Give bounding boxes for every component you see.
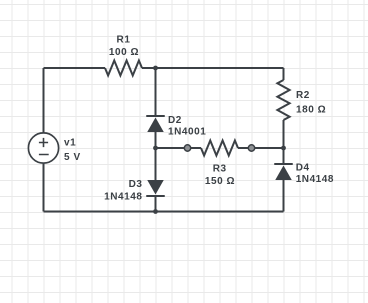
svg-text:R1: R1 bbox=[117, 35, 131, 46]
svg-text:R2: R2 bbox=[296, 90, 310, 101]
svg-text:D4: D4 bbox=[296, 163, 310, 174]
wire middle horizontal right of R3 bbox=[238, 147, 284, 149]
svg-text:D3: D3 bbox=[129, 179, 143, 190]
diode D4 bbox=[274, 164, 293, 180]
junction node bottom middle bbox=[153, 209, 158, 214]
junction node right middle bbox=[281, 146, 286, 151]
svg-text:100 Ω: 100 Ω bbox=[109, 47, 139, 58]
resistor R1 bbox=[105, 61, 142, 76]
wire top rail right of R1 bbox=[142, 67, 284, 69]
node terminal A (gray) bbox=[184, 145, 190, 151]
diode D2 bbox=[146, 116, 165, 132]
wire middle rail D2 to junction bbox=[155, 132, 157, 148]
diode D3 bbox=[146, 180, 165, 196]
wire right rail above R2 bbox=[283, 68, 285, 80]
svg-text:D2: D2 bbox=[168, 115, 182, 126]
wire right rail below D4 bbox=[283, 180, 285, 212]
svg-text:150 Ω: 150 Ω bbox=[205, 176, 235, 187]
wire right rail between R2 and D4 bbox=[283, 120, 285, 164]
junction node middle bbox=[153, 146, 158, 151]
svg-text:v1: v1 bbox=[64, 138, 76, 149]
svg-text:1N4148: 1N4148 bbox=[296, 174, 334, 185]
wire left rail below v1 bbox=[43, 164, 45, 212]
resistor R2 bbox=[277, 80, 289, 120]
wire left rail above v1 bbox=[43, 68, 45, 132]
svg-text:R3: R3 bbox=[213, 163, 227, 174]
junction node top middle bbox=[153, 66, 158, 71]
wire middle rail above D2 bbox=[155, 68, 157, 116]
node terminal B (gray) bbox=[248, 145, 254, 151]
resistor R3 bbox=[201, 141, 238, 156]
wire middle horizontal left of R3 bbox=[156, 147, 202, 149]
wire bottom rail bbox=[44, 211, 284, 213]
wire top rail left of R1 bbox=[44, 67, 106, 69]
svg-text:180 Ω: 180 Ω bbox=[296, 104, 326, 115]
svg-text:5 V: 5 V bbox=[64, 152, 81, 163]
svg-text:1N4001: 1N4001 bbox=[168, 127, 206, 138]
voltage source v1 bbox=[28, 133, 58, 163]
wire middle rail junction to D3 bbox=[155, 148, 157, 180]
svg-text:1N4148: 1N4148 bbox=[104, 191, 142, 202]
wire middle rail below D3 bbox=[155, 196, 157, 212]
